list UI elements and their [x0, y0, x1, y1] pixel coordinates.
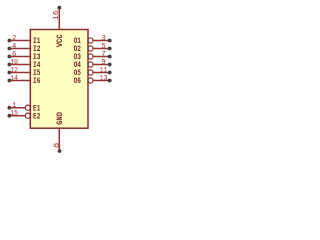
pin 16 (VCC power) wire — [53, 6, 65, 48]
pin 8 (GND power) wire — [53, 112, 65, 153]
svg-text:10: 10 — [10, 59, 18, 67]
pin 10 (I4 input) wire — [7, 59, 40, 70]
pin 6 (I3 input) wire — [7, 51, 40, 62]
IC body (hex inverting buffer) — [30, 30, 88, 129]
pin 4 (I2 input) wire — [7, 43, 40, 54]
svg-text:16: 16 — [53, 10, 61, 20]
pin 3 (O1 inverted output) wire — [74, 35, 112, 46]
svg-text:7: 7 — [101, 51, 105, 59]
svg-text:E2: E2 — [33, 112, 41, 121]
pin 2 (I1 input) wire — [7, 35, 40, 46]
svg-text:13: 13 — [100, 75, 108, 83]
svg-text:15: 15 — [10, 110, 18, 118]
svg-text:1: 1 — [12, 102, 16, 110]
svg-text:11: 11 — [100, 67, 108, 75]
svg-text:O6: O6 — [74, 77, 82, 86]
svg-text:5: 5 — [101, 43, 105, 51]
pin 9 (O4 inverted output) wire — [74, 59, 112, 70]
svg-text:8: 8 — [53, 143, 61, 148]
svg-text:14: 14 — [10, 75, 18, 83]
pin 11 (O5 inverted output) wire — [74, 67, 112, 78]
svg-text:4: 4 — [12, 43, 16, 51]
pin 5 (O2 inverted output) wire — [74, 43, 112, 54]
svg-text:9: 9 — [101, 59, 105, 67]
svg-text:I6: I6 — [33, 77, 41, 86]
svg-text:2: 2 — [12, 35, 16, 43]
svg-text:6: 6 — [12, 51, 16, 59]
svg-text:12: 12 — [10, 67, 18, 75]
pin 7 (O3 inverted output) wire — [74, 51, 112, 62]
svg-text:VCC: VCC — [56, 34, 65, 47]
svg-text:GND: GND — [56, 112, 65, 125]
pin 14 (I6 input) wire — [7, 75, 40, 86]
svg-text:3: 3 — [101, 35, 105, 43]
pin 15 (E2 active-low enable) wire — [7, 110, 40, 121]
pin 13 (O6 inverted output) wire — [74, 75, 112, 86]
pin 12 (I5 input) wire — [7, 67, 40, 78]
pin 1 (E1 active-low enable) wire — [7, 102, 40, 113]
